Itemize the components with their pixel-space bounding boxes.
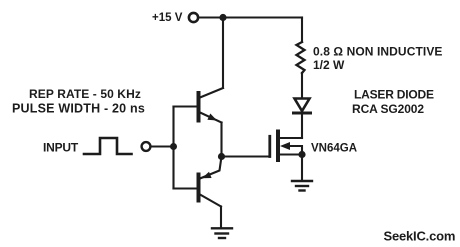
label: LASER DIODE / RCA SG2002 [352,88,434,117]
wire: Q2 collector to ground [220,207,222,227]
terminal: +15 V supply [189,13,198,22]
junction: supply node [219,14,226,21]
svg-text:1/2 W: 1/2 W [313,58,345,72]
wire: output node to MOSFET gate [222,155,270,157]
ground: Q2 collector [212,228,232,238]
svg-text:0.8 Ω NON INDUCTIVE: 0.8 Ω NON INDUCTIVE [313,45,443,59]
wire: input terminal to base node [151,145,174,147]
junction: MOSFET source node [298,151,305,158]
transistor Q1 (NPN, upper) [174,88,224,123]
svg-text:REP RATE - 50 KHz: REP RATE - 50 KHz [29,87,141,101]
laser diode D1: RCA SG2002 [294,99,311,114]
wire: Q1 emitter down to output node [220,123,222,157]
svg-text:VN64GA: VN64GA [311,143,357,155]
wire: resistor to laser diode [301,73,303,99]
svg-text:LASER DIODE: LASER DIODE [354,88,434,102]
label: REP RATE - 50 KHz / PULSE WIDTH - 20 ns [12,87,145,116]
MOSFET Q3: VN64GA (N-channel) [270,132,302,161]
svg-text:INPUT: INPUT [43,141,79,155]
svg-text:+15 V: +15 V [152,12,183,24]
wire: rail down to resistor [301,18,303,43]
wire: supply node down to Q1 collector [222,18,224,89]
wire: laser diode to MOSFET drain [301,113,303,138]
input pulse waveform [84,138,132,154]
transistor Q2 (PNP, lower) [174,157,222,207]
wire: top supply rail [199,16,303,18]
svg-text:RCA SG2002: RCA SG2002 [352,102,424,116]
ground: MOSFET source [292,181,312,191]
terminal: input [142,142,151,151]
svg-text:SeekIC.com: SeekIC.com [384,229,456,244]
wire: base bus vertical [172,107,174,189]
junction: input node [170,143,177,150]
label: 0.8 ohm NON INDUCTIVE / 1/2 W [313,45,443,73]
resistor R1: 0.8 ohm non-inductive [297,42,305,73]
svg-text:PULSE WIDTH - 20 ns: PULSE WIDTH - 20 ns [12,102,145,116]
wire: source node to ground [301,155,303,181]
junction: output node [218,153,225,160]
